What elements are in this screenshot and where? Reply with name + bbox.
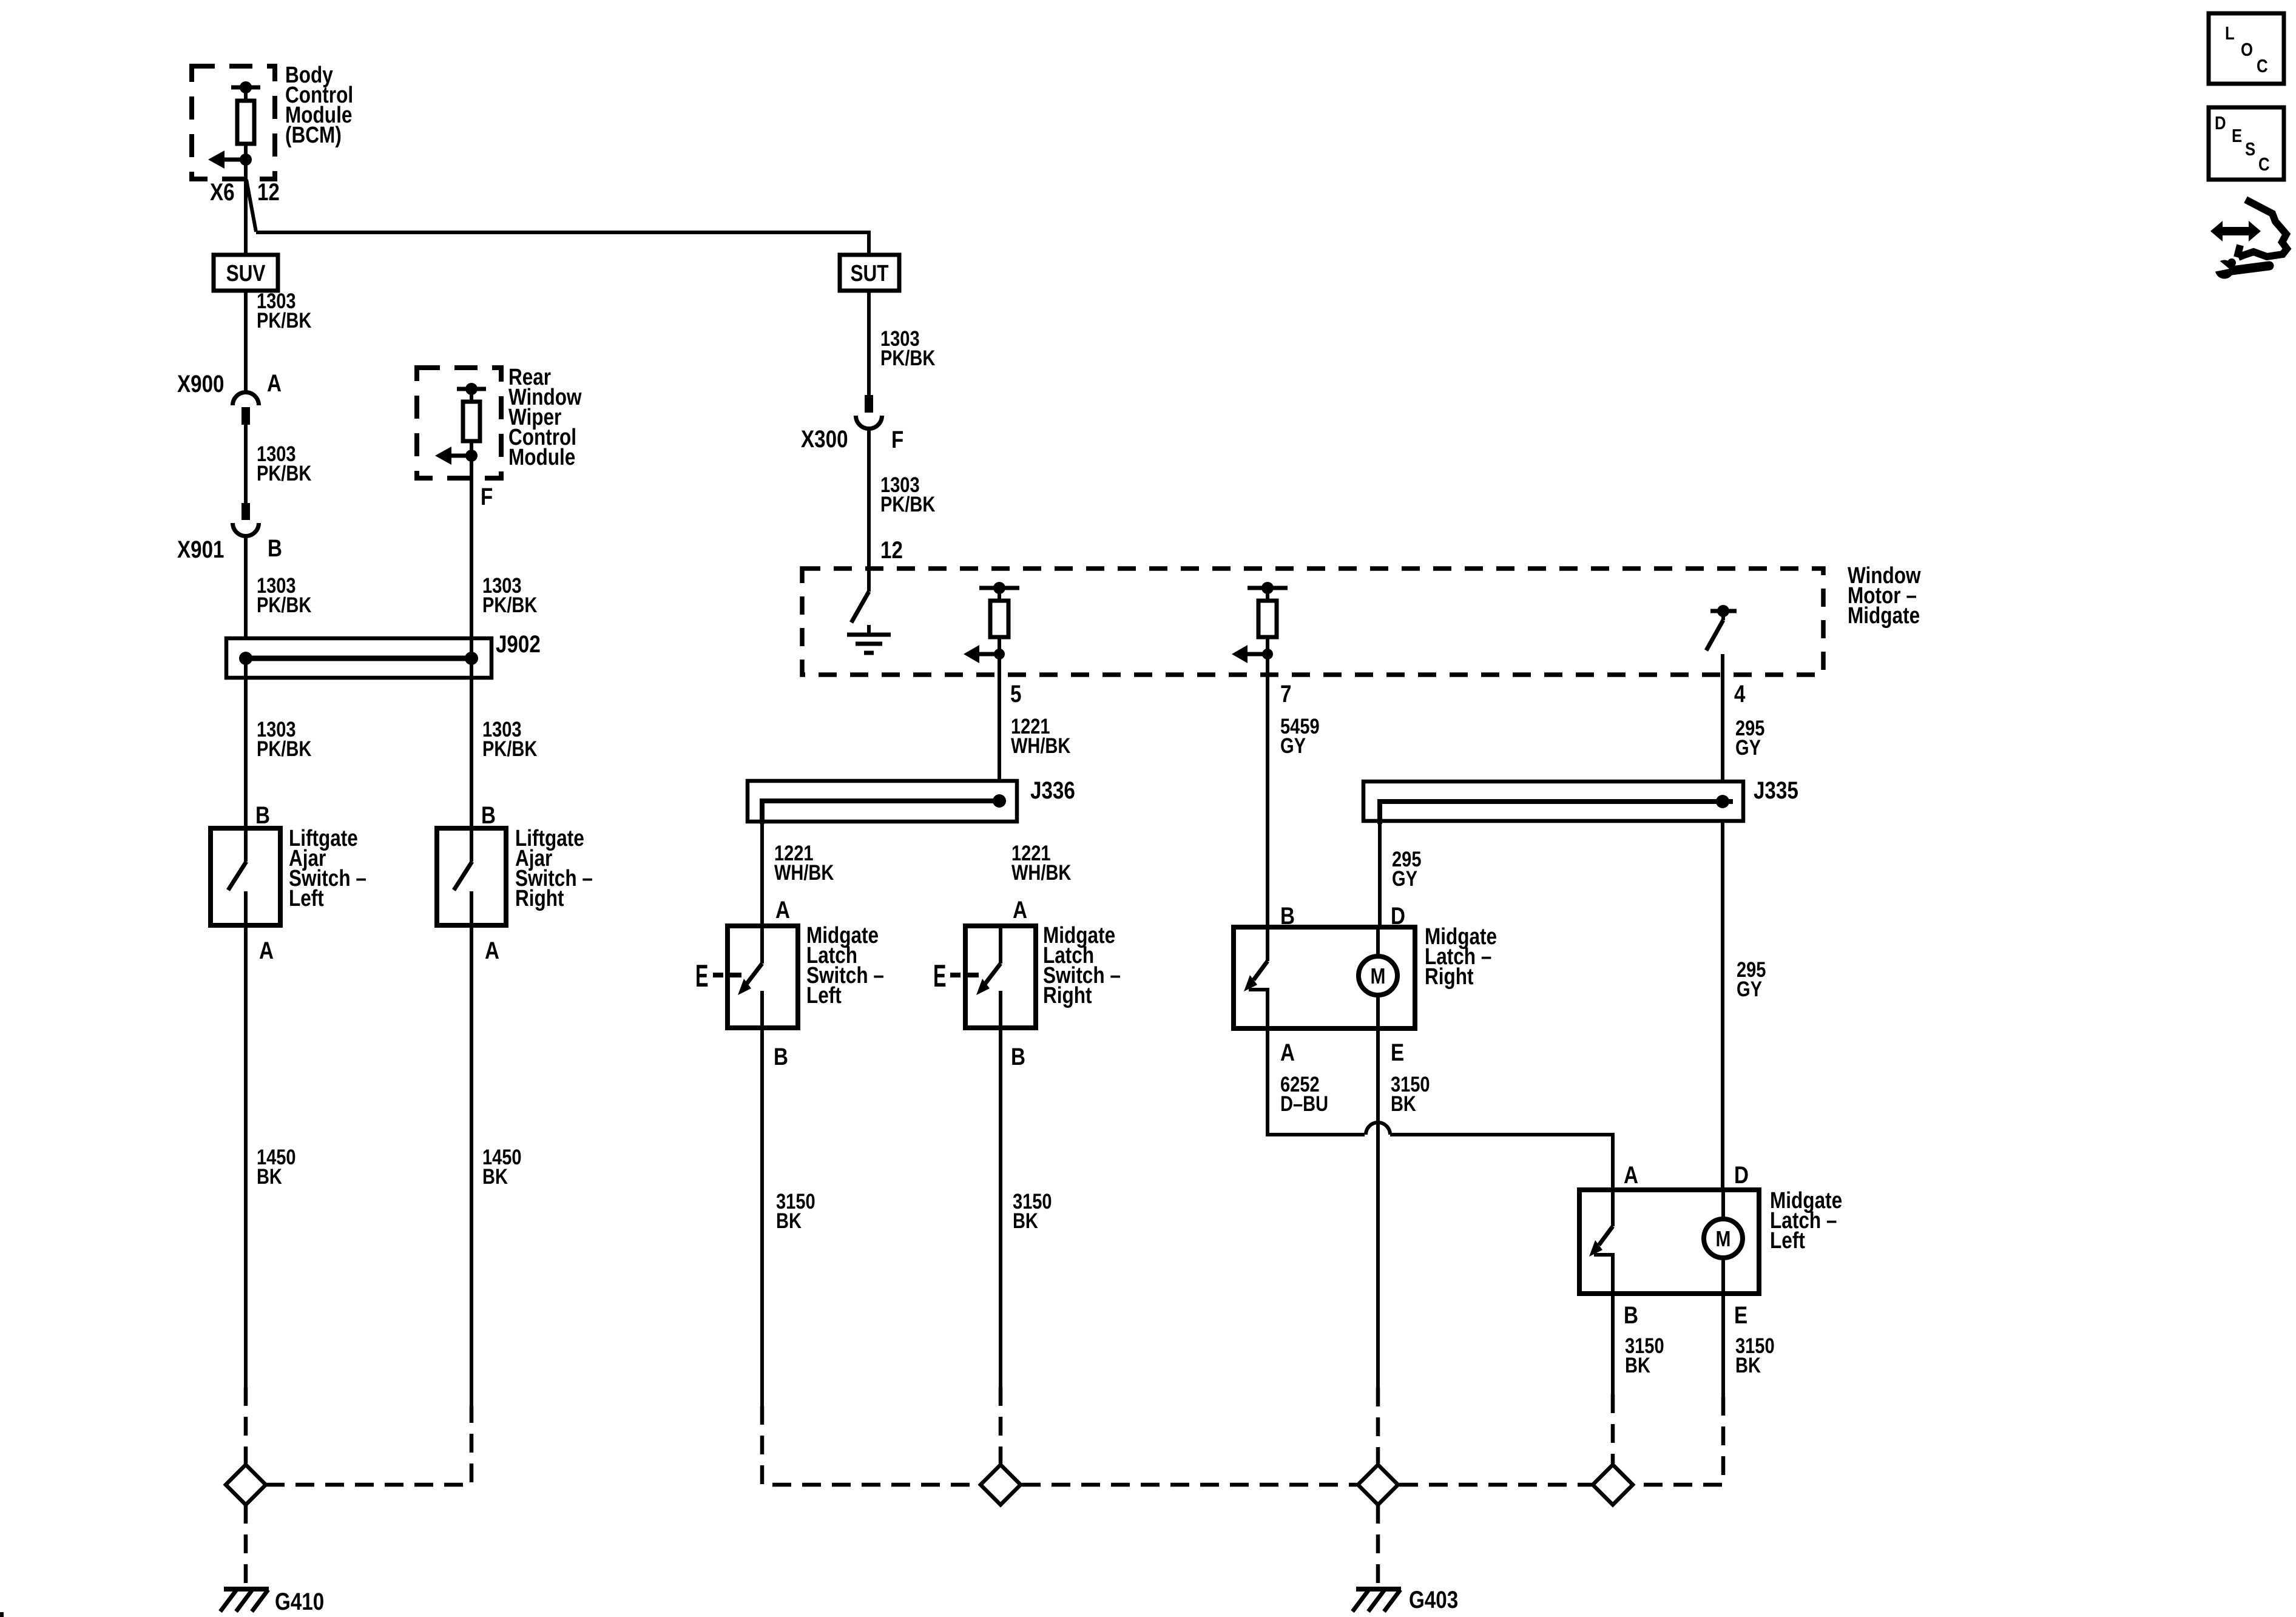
labels X901 / pin B [177,535,282,563]
svg-text:SUT: SUT [850,260,888,286]
wire midgate latch switch right to diamond [999,1028,1002,1387]
svg-text:D–BU: D–BU [1280,1092,1328,1115]
ground G410 [220,1589,269,1612]
label Midgate Latch Switch - Left [806,922,884,1008]
wire latch left pin E down [1721,1294,1725,1397]
labels X300 / pin F [801,425,903,453]
wire X300 to window motor [867,428,871,592]
svg-text:B: B [1011,1043,1025,1070]
svg-text:B: B [1624,1301,1638,1329]
wire J335 to midgate latch right pin D [1378,821,1382,927]
wire label 1303 PK/BK (X300) [880,473,935,516]
window motor - midgate dashed box M1 [802,569,1823,675]
svg-text:A: A [1013,896,1027,923]
wire label 1450 BK (left) [257,1145,296,1188]
svg-text:GY: GY [1735,735,1761,759]
svg-text:PK/BK: PK/BK [880,492,935,516]
wire label 1450 BK (right) [482,1145,522,1188]
wire label 3150 BK (switch left) [776,1189,815,1232]
svg-text:PK/BK: PK/BK [880,346,935,370]
splice pack J336 [748,781,1017,824]
wire label 1221 WH/BK (right) [1011,841,1071,884]
svg-text:E: E [1391,1039,1404,1066]
wire label 1303 PK/BK (wiper) [482,573,537,616]
wire label 1303 PK/BK (2) [257,442,311,485]
splice pack J335 [1363,781,1743,824]
wire latch left pin B to diamond 4 [1611,1294,1615,1394]
svg-text:WH/BK: WH/BK [1011,734,1070,757]
body control module (BCM) dashed box [192,66,275,179]
splice diamond 3 G403 [1358,1465,1398,1505]
service icon double arrow [2210,221,2261,241]
splice diamond 4 [1593,1465,1633,1505]
motor winding 2 arrow [1232,645,1268,663]
midgate latch switch - right S4 [965,926,1036,1028]
wire SUT to X300 [867,291,871,396]
svg-text:PK/BK: PK/BK [257,308,311,332]
svg-text:BK: BK [1735,1353,1761,1377]
wire J902 to liftgate ajar switch right [470,658,473,828]
svg-text:A: A [1280,1039,1295,1066]
motor M of midgate latch right [1359,927,1397,1028]
wire J902 to Liftgate Ajar Switch Left [244,658,248,828]
svg-text:B: B [255,802,270,829]
wire latch right pin E to diamond 3 [1376,1028,1380,1388]
svg-text:12: 12 [257,178,280,206]
svg-text:X300: X300 [801,425,848,453]
svg-text:GY: GY [1392,866,1417,890]
wire label 1221 WH/BK (left) [774,841,834,884]
svg-text:A: A [1624,1161,1638,1189]
motor M of midgate latch left [1704,1190,1743,1294]
svg-text:E: E [1734,1301,1747,1329]
midgate latch - right A1 [1234,927,1415,1028]
wiper module internal resistor [457,383,486,456]
svg-text:Left: Left [806,982,842,1008]
LOC legend box [2209,13,2284,84]
svg-text:L: L [2225,23,2235,44]
wire label 1303 PK/BK (3) [257,573,311,616]
svg-text:B: B [481,802,496,829]
svg-text:5: 5 [1010,680,1021,707]
svg-text:PK/BK: PK/BK [257,593,311,616]
wire liftgate right down [470,925,473,1406]
wire label 1303 PK/BK (4) [257,717,311,760]
svg-text:GY: GY [1737,977,1762,1001]
svg-text:PK/BK: PK/BK [257,461,311,485]
dashed wire into splice diamond [244,1387,248,1463]
connector X6 pin 12 labels [210,178,280,206]
liftgate ajar switch - left S1 [211,828,280,925]
motor winding 1 [979,582,1019,654]
dashed wire into diamond 2 [999,1387,1003,1463]
svg-text:SUV: SUV [226,260,266,286]
svg-text:O: O [2241,39,2253,61]
svg-text:BK: BK [1013,1209,1038,1232]
svg-text:F: F [481,483,493,510]
label Midgate Latch - Right [1425,923,1497,989]
svg-text:WH/BK: WH/BK [774,860,834,884]
svg-text:J336: J336 [1030,777,1075,804]
label Window Motor - Midgate [1848,562,1921,628]
svg-text:B: B [774,1043,788,1070]
label Body Control Module (BCM) [285,62,353,147]
svg-text:M: M [1716,1227,1731,1251]
svg-text:BK: BK [482,1164,508,1188]
wire motor pin 4 to J335 and latch left pin D [1721,654,1724,1190]
svg-text:A: A [267,370,282,397]
dashed ground bus segment diamond3-diamond4 [1399,1483,1592,1487]
connector X901 [233,503,259,536]
wire label 1303 PK/BK (1) [257,289,311,332]
wire 6252 D-BU continues to latch left [1390,1135,1613,1190]
wire branch to SUT [256,232,869,256]
wire label 1303 PK/BK (SUT) [880,326,935,370]
dashed wire latch switch left to bus corner [762,1406,979,1485]
wire midgate latch switch left to ground bus [760,1028,764,1406]
svg-text:12: 12 [880,536,903,564]
motor winding 1 junction dot [994,649,1005,660]
dashed wire into diamond 4 [1611,1394,1615,1463]
harness option box SUT [840,255,899,291]
label Rear Window Wiper Control Module [508,364,582,470]
midgate latch - left A2 [1579,1190,1759,1294]
page corner mark [0,1612,4,1617]
BCM output arrow [208,150,246,169]
svg-text:Right: Right [1425,964,1474,989]
label Midgate Latch - Left [1770,1187,1842,1253]
svg-text:X901: X901 [177,536,225,563]
svg-text:J902: J902 [496,630,541,658]
wire motor pin 5 to J336 [998,654,1001,801]
wire X900 to X901 [244,425,248,503]
svg-text:PK/BK: PK/BK [257,737,311,760]
wire liftgate left to ground bus [244,925,248,1387]
svg-text:F: F [891,426,903,453]
svg-text:4: 4 [1734,680,1746,707]
svg-text:BK: BK [1625,1353,1650,1377]
dashed ground bus segment diamond2-diamond3 [1022,1483,1357,1487]
svg-text:A: A [485,937,499,964]
splice diamond G410 bus [226,1465,266,1505]
svg-text:PK/BK: PK/BK [482,593,537,616]
label Liftgate Ajar Switch - Right [515,825,593,911]
motor winding 2 junction dot [1262,649,1273,660]
motor internal earth ground [847,625,891,653]
wire J336 to midgate latch switch left [760,822,764,926]
DESC legend box [2209,107,2284,180]
BCM output junction dot [240,154,252,166]
ground G403 [1352,1589,1401,1612]
labels X900 / pin A [177,370,282,397]
rear window wiper control module dashed box [417,368,501,478]
svg-text:C: C [2257,56,2268,77]
wire motor pin 7 to midgate latch right pin B [1266,654,1269,927]
svg-text:A: A [775,896,790,923]
dashed bus diamond to right liftgate wire [266,1406,471,1485]
svg-text:BK: BK [776,1209,802,1232]
wire X901 to J902 [244,536,248,658]
svg-text:C: C [2258,154,2270,175]
connector X300 [856,395,882,429]
harness option box SUV [214,255,278,291]
dashed wire diamond to G410 [244,1505,248,1586]
wire label 3150 BK (latch left E) [1735,1334,1775,1377]
wire wiper module to J902 [470,456,473,658]
service icon part outline [2237,200,2287,257]
dashed wire diamond 3 to G403 [1376,1505,1380,1586]
svg-text:Right: Right [515,885,564,911]
wire branch slash at X6 [246,180,256,232]
label Midgate Latch Switch - Right [1043,922,1121,1008]
E reference left [695,959,741,994]
midgate latch switch - left S3 [728,926,798,1028]
liftgate ajar switch - right S2 [437,828,506,925]
svg-text:BK: BK [257,1164,282,1188]
svg-text:G403: G403 [1409,1586,1458,1613]
wire label 295 GY (J335 right) [1737,957,1766,1001]
svg-text:X900: X900 [177,370,225,397]
wire label 3150 BK (latch left B) [1625,1334,1664,1377]
splice pack J902 [226,638,491,678]
svg-text:GY: GY [1280,734,1306,757]
wire label 6252 D-BU [1280,1072,1328,1115]
BCM internal resistor [231,81,260,160]
svg-text:D: D [1734,1161,1749,1189]
svg-text:Right: Right [1043,982,1092,1008]
wire SUV to X900 [244,291,248,394]
wire label 3150 BK (switch right) [1013,1189,1052,1232]
svg-text:E: E [695,959,709,994]
dashed wire latch left pin E to bus corner [1634,1397,1723,1485]
dashed wire into diamond 3 [1376,1388,1380,1463]
wire label 295 GY (pin4) [1735,716,1764,759]
svg-text:D: D [2215,113,2226,134]
motor internal switch blade pin 12 [851,592,869,623]
wire BCM to SUV [244,160,248,256]
svg-text:WH/BK: WH/BK [1011,860,1071,884]
wire label 1303 PK/BK (5) [482,717,537,760]
svg-text:S: S [2245,139,2255,160]
splice diamond 2 [981,1465,1021,1505]
wire 6252 D-BU latch right pin A to latch left pin A [1268,1028,1365,1135]
wiper module arrow [435,447,471,465]
E reference right [933,959,979,994]
svg-text:M: M [1371,964,1386,988]
service icon wrench [2211,257,2269,279]
svg-text:J335: J335 [1754,777,1798,804]
label Liftgate Ajar Switch - Left [289,825,366,911]
svg-text:A: A [259,937,274,964]
wiper module junction dot [465,450,478,462]
svg-text:Midgate: Midgate [1848,603,1920,628]
svg-text:E: E [2232,126,2242,147]
wire label 5459 GY [1280,714,1320,757]
motor winding 2 [1248,582,1288,654]
svg-text:G410: G410 [275,1588,324,1615]
svg-text:Left: Left [289,885,324,911]
wire label 1221 WH/BK (pin5) [1011,714,1070,757]
svg-text:X6: X6 [210,178,235,206]
motor internal switch pin 4 [1706,605,1737,650]
svg-text:Left: Left [1770,1227,1805,1253]
svg-text:7: 7 [1280,680,1291,707]
wire label 3150 BK (latch right) [1391,1072,1430,1115]
connector X900 [233,393,259,425]
svg-text:E: E [933,959,947,994]
svg-text:B: B [268,535,282,562]
motor winding 1 arrow [964,645,999,663]
svg-text:(BCM): (BCM) [285,122,342,147]
svg-text:BK: BK [1391,1092,1416,1115]
wire label 295 GY (J335 left) [1392,847,1421,890]
svg-text:PK/BK: PK/BK [482,737,537,760]
svg-text:Module: Module [508,444,575,470]
wire hop over 3150 BK [1366,1122,1390,1135]
